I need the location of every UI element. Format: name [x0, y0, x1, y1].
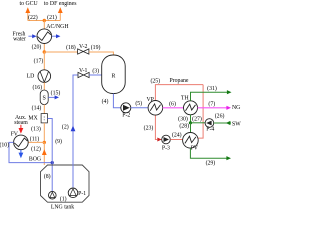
node junction tank suction	[51, 161, 54, 164]
wire (22)-(21) BOG header	[28, 12, 61, 21]
vessel R	[102, 55, 126, 94]
mixer MX	[41, 114, 47, 123]
svg-text:LD: LD	[27, 74, 35, 80]
arrow (31)	[227, 90, 232, 94]
label Aux. steam	[14, 115, 28, 126]
arrow fresh water out	[52, 35, 57, 37]
wire (24)	[170, 139, 182, 141]
wire (31)	[191, 92, 228, 101]
wire (12) BOG riser	[43, 142, 45, 165]
wire junction to AC/NGH	[43, 21, 45, 30]
svg-text:BOG: BOG	[29, 157, 41, 163]
wire (29)	[190, 148, 227, 158]
arrow fresh water in	[28, 35, 32, 37]
wire propane downcomer	[197, 85, 203, 139]
heat exchanger PV	[183, 133, 199, 149]
wire (25) propane top	[155, 85, 203, 101]
pump P-4	[205, 119, 214, 128]
svg-text:P-1: P-1	[78, 191, 86, 197]
node junction SW	[189, 121, 192, 124]
pump spray pump	[49, 191, 57, 199]
svg-text:R: R	[111, 74, 115, 80]
svg-text:(8): (8)	[44, 173, 51, 180]
node junction BOG/FV	[43, 141, 46, 144]
arrow into P-3	[157, 138, 161, 142]
pump P-1	[68, 188, 78, 198]
heat exchanger TH	[184, 101, 198, 115]
wire (3)	[89, 74, 102, 76]
pump P-3	[162, 135, 171, 144]
compressor LD	[38, 70, 51, 83]
wire (8)	[51, 163, 53, 192]
wire (18)	[44, 51, 77, 53]
svg-text:(21): (21)	[47, 14, 57, 21]
wire (23)	[155, 115, 157, 139]
svg-text:to DF engines: to DF engines	[44, 1, 77, 7]
svg-text:to GCU: to GCU	[19, 1, 38, 7]
svg-text:(7): (7)	[208, 101, 215, 108]
svg-text:(1): (1)	[60, 196, 67, 203]
wire (11)	[28, 141, 44, 143]
svg-text:FV: FV	[11, 131, 19, 137]
svg-text:(25): (25)	[150, 77, 160, 84]
separator S	[40, 90, 48, 105]
svg-text:P-4: P-4	[206, 126, 214, 132]
svg-text:(6): (6)	[169, 100, 176, 107]
wire (17)	[43, 52, 45, 70]
svg-text:(23): (23)	[144, 124, 154, 131]
svg-text:(10): (10)	[0, 142, 9, 149]
svg-text:(20): (20)	[32, 43, 42, 50]
node junction mid	[43, 50, 46, 53]
svg-text:(11): (11)	[30, 136, 40, 143]
svg-text:P-3: P-3	[162, 145, 170, 151]
wire (9)	[47, 119, 52, 163]
svg-text:(22): (22)	[28, 14, 38, 21]
svg-text:(16): (16)	[32, 84, 42, 91]
wire (10)	[9, 142, 52, 162]
svg-text:P-2: P-2	[122, 113, 130, 119]
arrow (7) NG	[198, 107, 228, 109]
wire through AC/NGH vertical	[43, 29, 45, 52]
heat exchanger AC/NGH	[37, 29, 52, 44]
svg-text:(18): (18)	[66, 44, 76, 51]
wire (13)	[43, 123, 45, 142]
arrow (15) drain	[48, 96, 55, 98]
svg-text:Propane: Propane	[170, 78, 189, 84]
wire (2)	[73, 75, 78, 187]
arrow aux steam in	[20, 125, 22, 129]
wire (28) node to PV	[190, 123, 192, 133]
arrow condensate out	[20, 150, 22, 154]
pump P-2	[121, 103, 131, 113]
wire TH to node	[190, 115, 192, 123]
label Fresh water	[13, 32, 26, 43]
svg-text:MX: MX	[28, 116, 38, 122]
svg-text:NG: NG	[232, 105, 240, 111]
svg-text:(30): (30)	[178, 116, 188, 123]
svg-text:(15): (15)	[51, 89, 61, 96]
wire (14)	[43, 105, 45, 114]
svg-text:(2): (2)	[62, 124, 69, 131]
svg-text:(26): (26)	[215, 112, 225, 119]
svg-text:(12): (12)	[31, 146, 41, 153]
arrow BOG up	[42, 149, 47, 155]
svg-text:(13): (13)	[31, 125, 41, 132]
valve V-1	[78, 72, 89, 77]
svg-text:(3): (3)	[92, 68, 99, 75]
arrow SW inlet	[214, 122, 231, 124]
svg-text:(9): (9)	[55, 138, 62, 145]
svg-text:AC/NGH: AC/NGH	[46, 24, 69, 30]
svg-text:(24): (24)	[172, 132, 182, 139]
svg-text:(27): (27)	[192, 116, 202, 123]
svg-text:(29): (29)	[206, 160, 216, 167]
LNG tank	[41, 165, 90, 202]
wire (5)	[131, 107, 148, 109]
svg-text:VP: VP	[146, 97, 153, 103]
heat exchanger FV	[14, 135, 29, 150]
wire (6)	[163, 107, 184, 109]
svg-text:(31): (31)	[207, 85, 217, 92]
arrow to DF engines	[58, 7, 63, 13]
wire (16)	[43, 82, 45, 90]
svg-text:(19): (19)	[91, 44, 101, 51]
svg-text:(14): (14)	[32, 105, 42, 112]
svg-text:PV: PV	[191, 146, 199, 152]
svg-text:steam: steam	[14, 120, 28, 126]
node junction top	[43, 19, 46, 22]
svg-text:V-1: V-1	[79, 68, 88, 74]
svg-text:LNG tank: LNG tank	[51, 204, 74, 209]
svg-text:(28): (28)	[179, 122, 189, 129]
wire (27) node to P-4	[191, 122, 206, 124]
svg-text:V-2: V-2	[79, 44, 88, 50]
svg-text:TH: TH	[181, 96, 190, 102]
arrow (29)	[226, 156, 231, 160]
svg-text:water: water	[13, 37, 26, 43]
svg-text:(5): (5)	[135, 100, 142, 107]
svg-text:S: S	[43, 96, 46, 102]
wire (19)	[89, 52, 114, 56]
svg-text:SW: SW	[232, 121, 241, 127]
svg-text:(17): (17)	[34, 57, 44, 64]
valve V-2	[78, 49, 89, 54]
heat exchanger VP	[148, 101, 163, 116]
svg-text:(4): (4)	[102, 98, 109, 105]
wire (4)	[113, 94, 120, 108]
arrow to GCU	[25, 7, 30, 13]
arrow (2) up	[71, 126, 76, 132]
